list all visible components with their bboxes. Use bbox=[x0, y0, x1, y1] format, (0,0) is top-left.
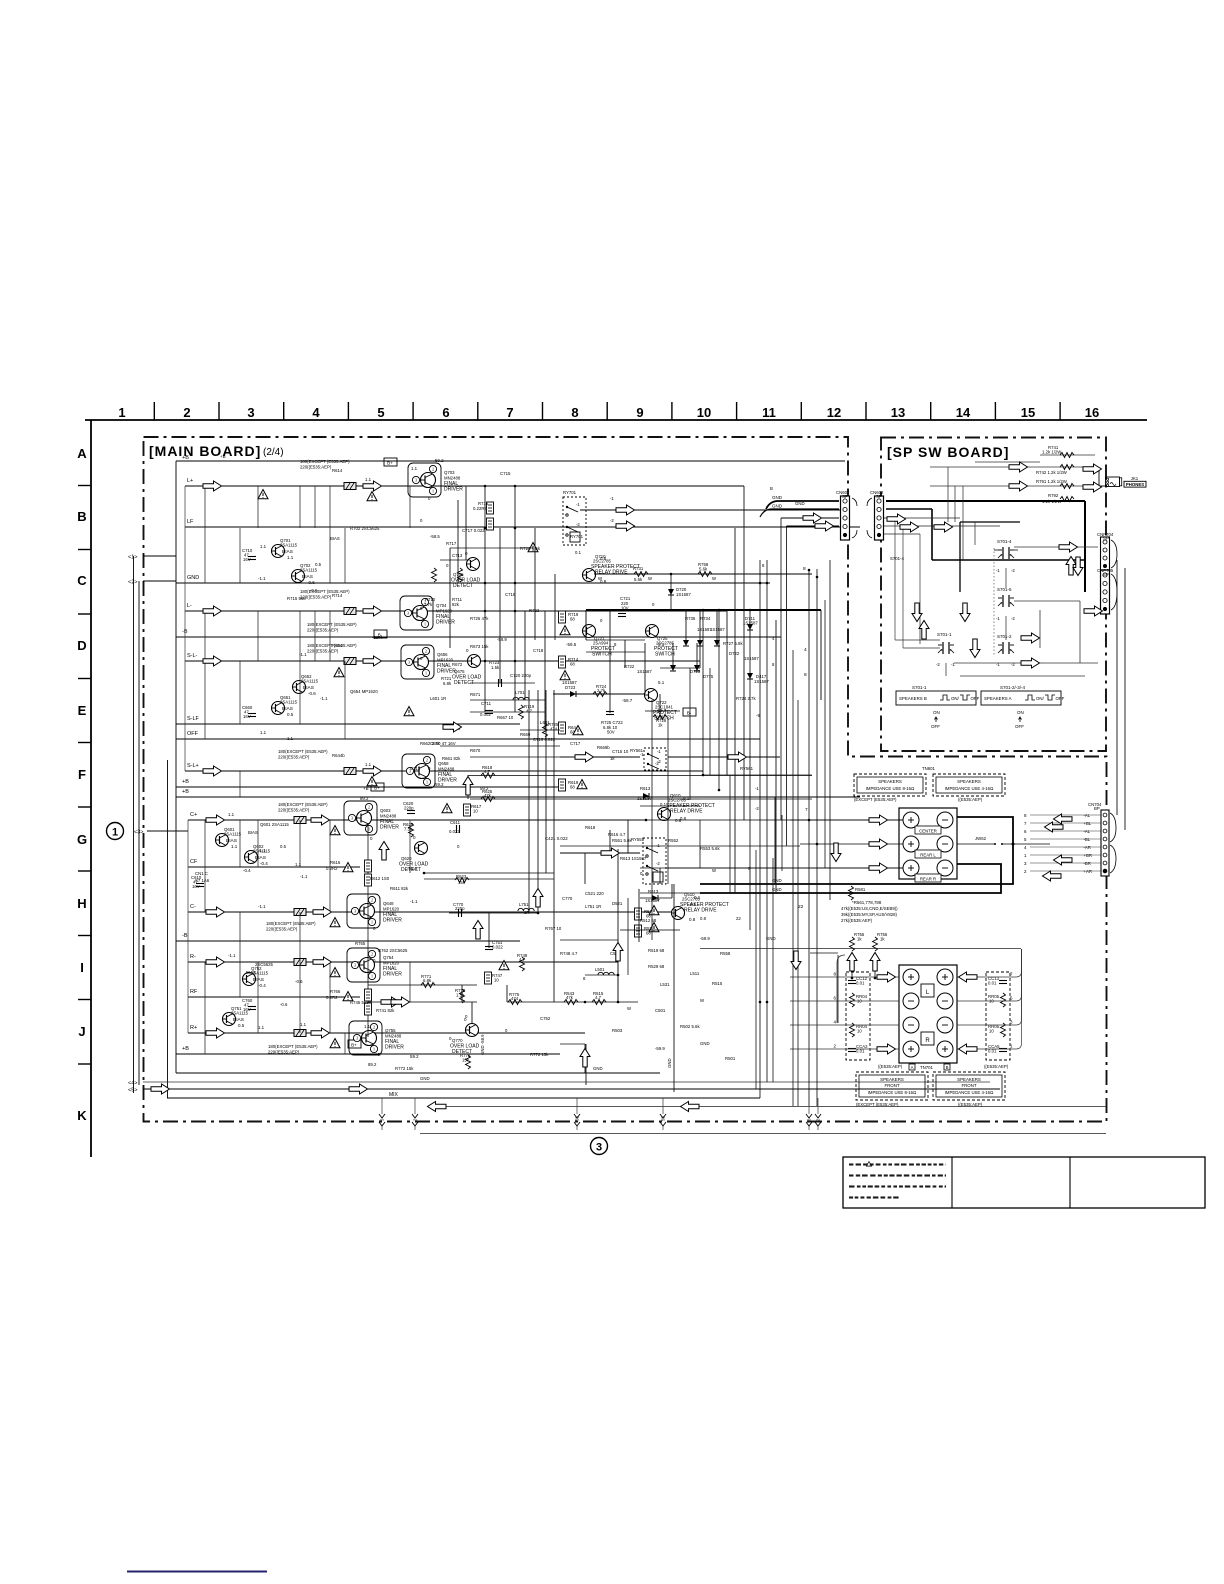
wire -B rail bbox=[176, 636, 781, 638]
svg-text:SWITCH: SWITCH bbox=[655, 652, 675, 658]
wire vertical segment bbox=[659, 868, 661, 884]
diode D717 bbox=[747, 673, 753, 679]
svg-text:0.022: 0.022 bbox=[492, 945, 503, 950]
svg-text:0.5: 0.5 bbox=[287, 712, 294, 717]
wire vertical stub bbox=[314, 486, 316, 528]
svg-text:MN2488: MN2488 bbox=[444, 476, 461, 481]
boxed resistor R619 bbox=[559, 779, 566, 791]
transistor Q754 final driver bbox=[347, 948, 402, 982]
wire vertical stub bbox=[239, 820, 241, 867]
wire riser x703 bbox=[702, 610, 704, 775]
inner bus vertical g3 bbox=[187, 820, 189, 1033]
transistor Q620 over load detect bbox=[399, 835, 429, 873]
relay RY561 contacts bbox=[647, 753, 649, 755]
resistor R741 bbox=[1060, 453, 1074, 458]
wire protect lower bbox=[553, 693, 586, 695]
wire horizontal segment bbox=[586, 639, 645, 641]
wire vertical segment bbox=[672, 643, 674, 668]
svg-text:R731: R731 bbox=[633, 566, 644, 571]
transistor Q703 final driver bbox=[408, 463, 463, 497]
resistor fuse SL+ row bbox=[344, 768, 356, 775]
svg-text:-59.9: -59.9 bbox=[700, 936, 710, 941]
connector CN602 brace bbox=[852, 498, 857, 538]
speakers front box 1 bbox=[856, 1072, 928, 1100]
svg-text:BIAS: BIAS bbox=[248, 830, 258, 835]
wire vertical segment bbox=[461, 985, 463, 1002]
wire vertical segment bbox=[585, 1044, 587, 1085]
warning triangle R747 bbox=[499, 961, 509, 970]
warning triangle SL+ row bbox=[367, 777, 377, 786]
svg-text:CF: CF bbox=[190, 859, 198, 865]
svg-text:2SA1115: 2SA1115 bbox=[224, 831, 242, 836]
boxed resistor R714 bbox=[559, 656, 566, 668]
svg-text:3.7k: 3.7k bbox=[424, 602, 433, 607]
svg-text:47k: 47k bbox=[566, 995, 574, 1000]
wire vertical segment bbox=[734, 528, 736, 893]
svg-text:*R561,778,788: *R561,778,788 bbox=[852, 900, 882, 905]
svg-text:220((E535:AEP): 220((E535:AEP) bbox=[307, 628, 339, 633]
resistor R742 bbox=[1060, 465, 1074, 470]
switch S701-2 bbox=[998, 642, 1014, 654]
wire vertical segment bbox=[467, 775, 469, 799]
svg-text:10: 10 bbox=[857, 1029, 862, 1034]
transistor Q751 bias bbox=[223, 1006, 249, 1028]
svg-text:REAR L: REAR L bbox=[920, 853, 936, 858]
svg-text:1S1587: 1S1587 bbox=[744, 656, 759, 661]
svg-text:-1: -1 bbox=[640, 752, 644, 757]
wire vertical segment bbox=[528, 690, 530, 913]
connector CN704 strip bbox=[1101, 810, 1109, 876]
svg-text:C720 220p: C720 220p bbox=[510, 673, 532, 678]
svg-text:GND: GND bbox=[772, 887, 782, 892]
svg-text:<4>: <4> bbox=[128, 1081, 137, 1087]
svg-text:R613 1S1587: R613 1S1587 bbox=[620, 856, 647, 861]
wire vertical segment bbox=[609, 830, 611, 852]
wire vertical segment bbox=[553, 690, 555, 1002]
wire riser x800 bbox=[786, 526, 788, 846]
wire C- bus bbox=[188, 911, 672, 913]
svg-text:R616 4.7: R616 4.7 bbox=[608, 832, 626, 837]
wire vertical segment bbox=[671, 884, 673, 898]
svg-text:LF: LF bbox=[187, 519, 194, 525]
switch S701-1 bbox=[938, 642, 954, 654]
svg-text:JW62: JW62 bbox=[975, 836, 987, 841]
svg-text:8: 8 bbox=[804, 672, 807, 678]
svg-text:RF: RF bbox=[190, 989, 198, 995]
wire horizontal segment bbox=[560, 845, 800, 847]
relay RY551 contacts bbox=[646, 847, 648, 849]
capacitor C611 bbox=[457, 825, 460, 833]
svg-text:R551 5.6k: R551 5.6k bbox=[612, 838, 632, 843]
wire rear r feed long bbox=[668, 867, 903, 869]
wire q722 emitter bbox=[645, 710, 680, 712]
wire GND bus row C bbox=[176, 582, 770, 584]
vertical resistor R711 bbox=[458, 568, 463, 582]
wire vertical segment bbox=[545, 690, 547, 873]
wire vertical riser bbox=[824, 600, 826, 868]
transistor Q602 bias bbox=[245, 844, 271, 866]
grid ruler column numbers 1-16 bbox=[118, 405, 1099, 420]
svg-text:C713: C713 bbox=[452, 553, 463, 558]
wire vertical segment bbox=[488, 913, 490, 948]
svg-text:[MAIN BOARD]: [MAIN BOARD] bbox=[149, 443, 261, 459]
wire horizontal segment bbox=[440, 745, 560, 747]
wire rear row bbox=[368, 984, 477, 986]
svg-text:MIX: MIX bbox=[389, 1092, 399, 1098]
resistor R618 4.7 bbox=[481, 773, 495, 778]
svg-text:1.1: 1.1 bbox=[258, 1025, 265, 1030]
svg-text:[SP SW BOARD]: [SP SW BOARD] bbox=[887, 444, 1009, 460]
svg-text:C: C bbox=[77, 573, 87, 588]
resistor R771 6.8k bbox=[421, 983, 435, 988]
warning triangle R616 bbox=[343, 863, 353, 872]
warning triangle L+ row bbox=[258, 490, 268, 499]
wire vertical riser bbox=[781, 815, 783, 871]
svg-text:1.1: 1.1 bbox=[295, 862, 302, 867]
svg-text:8: 8 bbox=[803, 566, 806, 572]
wire horizontal segment bbox=[470, 711, 545, 713]
svg-text:R552: R552 bbox=[668, 838, 679, 843]
wire vertical stub bbox=[257, 820, 259, 867]
svg-text:0.1: 0.1 bbox=[690, 902, 697, 907]
svg-text:-58.9: -58.9 bbox=[407, 866, 418, 871]
wire horizontal segment bbox=[640, 892, 700, 894]
svg-text:89.2: 89.2 bbox=[368, 1062, 377, 1067]
wire vertical segment bbox=[774, 797, 776, 884]
svg-text:CN1 C: CN1 C bbox=[195, 871, 208, 876]
svg-text:MN2488: MN2488 bbox=[385, 1034, 402, 1039]
svg-text:(2/4): (2/4) bbox=[263, 447, 284, 458]
connector chevron (6) at bottom edge bbox=[806, 1114, 812, 1126]
inductor L701 bbox=[513, 697, 529, 700]
wire D720 vertical bbox=[670, 574, 672, 610]
transistor Q652 bias bbox=[293, 674, 319, 696]
wire vertical stub bbox=[204, 486, 206, 583]
svg-text:R673 15k: R673 15k bbox=[470, 644, 489, 649]
heavy wire sp route left bbox=[886, 508, 932, 510]
svg-text:JK1: JK1 bbox=[1131, 476, 1139, 481]
svg-text:R: R bbox=[925, 1038, 930, 1044]
svg-text:-58.9: -58.9 bbox=[497, 637, 507, 642]
wire vertical riser bbox=[792, 650, 794, 1106]
svg-text:((E535:AEP): ((E535:AEP) bbox=[958, 797, 983, 802]
svg-text:B: B bbox=[770, 486, 773, 491]
svg-text:1.1: 1.1 bbox=[287, 555, 294, 560]
svg-text:DRIVER: DRIVER bbox=[385, 1045, 404, 1051]
svg-text:R672: R672 bbox=[452, 662, 463, 667]
svg-text:-1.1: -1.1 bbox=[258, 576, 266, 581]
grid ruler left line bbox=[90, 420, 92, 1157]
wire riser x767 bbox=[766, 560, 768, 1082]
relay RY551 coil bbox=[653, 872, 663, 882]
svg-text:C770: C770 bbox=[562, 896, 573, 901]
wire vertical segment bbox=[544, 611, 546, 730]
transistor Q601 bias bbox=[216, 827, 242, 849]
svg-text:-2: -2 bbox=[656, 861, 660, 866]
warning triangle SL row bbox=[334, 668, 344, 677]
svg-text:R-: R- bbox=[190, 954, 196, 960]
svg-text:C+: C+ bbox=[190, 812, 197, 818]
svg-text:R581: R581 bbox=[855, 887, 866, 892]
wire vertical stub bbox=[299, 912, 301, 962]
svg-text:C717: C717 bbox=[570, 741, 581, 746]
wire vertical segment bbox=[1124, 568, 1126, 830]
boxed resistor R747 bbox=[485, 972, 492, 984]
svg-text:Q601 2SA1115: Q601 2SA1115 bbox=[260, 822, 289, 827]
svg-text:1.1: 1.1 bbox=[364, 1024, 371, 1029]
capacitor C760 bbox=[248, 1007, 256, 1010]
label TN701 boxed AB bbox=[909, 1064, 915, 1070]
resistor R755 bbox=[850, 937, 855, 951]
transistor Q658 final driver bbox=[402, 754, 457, 788]
wire sp out row1 bbox=[1014, 546, 1098, 548]
svg-text:5.6k: 5.6k bbox=[699, 567, 708, 572]
svg-text:+BL: +BL bbox=[1084, 821, 1092, 826]
wire OFF bus bbox=[176, 738, 760, 740]
svg-text:5.6k: 5.6k bbox=[634, 577, 643, 582]
svg-text:47k((E535:US,CND,E/SEB9)): 47k((E535:US,CND,E/SEB9)) bbox=[841, 906, 898, 911]
svg-text:J: J bbox=[78, 1024, 85, 1039]
front terminal bbox=[937, 969, 953, 985]
grid ruler row letters A-K bbox=[77, 446, 87, 1123]
svg-text:16V: 16V bbox=[243, 1007, 251, 1012]
svg-text:+B: +B bbox=[375, 1052, 381, 1057]
svg-text:22: 22 bbox=[736, 916, 741, 921]
wire vertical stub bbox=[239, 661, 241, 724]
svg-text:220((E535:AEP): 220((E535:AEP) bbox=[266, 927, 298, 932]
wire vertical stub bbox=[344, 1033, 346, 1054]
warning triangle R766 bbox=[343, 992, 353, 1001]
svg-text:-58.5: -58.5 bbox=[430, 534, 440, 539]
svg-text:1.1: 1.1 bbox=[231, 844, 238, 849]
wire vertical stub bbox=[299, 611, 301, 661]
svg-text:Q754: Q754 bbox=[383, 955, 394, 960]
svg-text:4: 4 bbox=[312, 405, 320, 420]
svg-text:1: 1 bbox=[118, 405, 125, 420]
MAIN BOARD title bbox=[149, 443, 284, 459]
svg-text:RY701: RY701 bbox=[570, 534, 584, 539]
svg-text:180(EXCEPT (E535:AEP): 180(EXCEPT (E535:AEP) bbox=[266, 921, 316, 926]
svg-text:-59.7: -59.7 bbox=[656, 708, 667, 713]
svg-text:R727 6.8k: R727 6.8k bbox=[723, 641, 743, 646]
svg-text:-59.5: -59.5 bbox=[566, 642, 577, 647]
resistor R725b bbox=[543, 723, 548, 737]
inner block outline left edge bbox=[175, 461, 177, 1073]
wire driver chain vertical G-J bbox=[367, 823, 369, 1037]
svg-text:59.2: 59.2 bbox=[435, 458, 444, 463]
transistor Q610 speaker protect relay drive bbox=[658, 793, 715, 823]
label L boxed bbox=[921, 984, 934, 997]
svg-text:1.1: 1.1 bbox=[260, 730, 267, 735]
svg-text:RELAY DRIVE: RELAY DRIVE bbox=[670, 809, 703, 815]
transistor Q710 speaker protect relay drive bbox=[583, 554, 640, 584]
svg-text:-2: -2 bbox=[1011, 568, 1015, 573]
svg-text:FRONT: FRONT bbox=[884, 1083, 899, 1088]
wire vertical stub bbox=[329, 962, 331, 1033]
svg-text:-2: -2 bbox=[755, 806, 759, 811]
terminal tm bbox=[937, 860, 953, 876]
wire vertical segment bbox=[524, 611, 526, 700]
heavy wire sp left down bbox=[931, 509, 933, 560]
svg-text:R613: R613 bbox=[640, 786, 651, 791]
svg-text:GND: GND bbox=[772, 504, 783, 509]
svg-text:ON/: ON/ bbox=[951, 696, 960, 701]
svg-text:-1.1: -1.1 bbox=[258, 848, 266, 853]
svg-text:2SA1115: 2SA1115 bbox=[301, 678, 319, 683]
svg-text:180(EXCEPT (E535:AEP): 180(EXCEPT (E535:AEP) bbox=[300, 459, 350, 464]
relay RY561 dashed box bbox=[644, 748, 666, 770]
wire horizontal segment bbox=[424, 878, 554, 880]
svg-text:-0.4: -0.4 bbox=[258, 983, 266, 988]
wire L501 up bbox=[617, 940, 619, 975]
wire front return bus bbox=[700, 948, 1021, 950]
svg-text:<5>: <5> bbox=[128, 1088, 137, 1094]
wire vertical segment bbox=[624, 640, 626, 668]
connector chevron (55) at bottom edge bbox=[574, 1114, 580, 1126]
svg-text:R791 1.2k 1/2W: R791 1.2k 1/2W bbox=[1036, 479, 1068, 484]
wire rear l feed bbox=[800, 843, 903, 845]
terminal tp bbox=[903, 836, 919, 852]
wire gnd heavy route a bbox=[700, 817, 1013, 884]
wire r755 drop bbox=[851, 952, 853, 978]
wire vertical segment bbox=[627, 820, 629, 853]
svg-text:H: H bbox=[77, 896, 86, 911]
svg-text:C752: C752 bbox=[540, 1016, 551, 1021]
svg-text:D725: D725 bbox=[690, 669, 701, 674]
net label B- box mid bbox=[683, 708, 696, 716]
svg-text:1.5k: 1.5k bbox=[491, 665, 500, 670]
wire riser x809 bbox=[808, 569, 810, 1106]
wire vertical stub bbox=[299, 661, 301, 724]
relay RY551 dashed box bbox=[643, 838, 666, 884]
wire C+ bus bbox=[188, 819, 640, 821]
svg-text:4.7: 4.7 bbox=[484, 769, 491, 774]
warning triangle pair right bbox=[649, 906, 659, 915]
dashed option box left bbox=[846, 972, 870, 1060]
wire vertical segment bbox=[659, 694, 661, 717]
wire vertical segment bbox=[638, 889, 640, 942]
wire -B rail g4 bbox=[176, 940, 520, 942]
left connector riser wires bbox=[133, 556, 135, 1093]
svg-text:1S1587: 1S1587 bbox=[637, 796, 652, 801]
svg-text:59.2: 59.2 bbox=[435, 782, 444, 787]
wire g3 mid bbox=[424, 872, 554, 874]
svg-text:Q654 MP1620: Q654 MP1620 bbox=[350, 689, 378, 694]
svg-text:7: 7 bbox=[805, 807, 808, 813]
wire vertical riser extra bbox=[667, 717, 669, 884]
wire vertical stub bbox=[204, 820, 206, 912]
svg-text:SPEAKERS A: SPEAKERS A bbox=[984, 696, 1012, 701]
relay RY701 dashed box bbox=[563, 497, 586, 545]
capacitor C770 bbox=[459, 909, 462, 917]
resistor R726 bbox=[653, 715, 667, 720]
svg-text:OFF: OFF bbox=[187, 731, 199, 737]
wire horizontal segment bbox=[700, 798, 812, 800]
svg-text:+B: +B bbox=[182, 455, 189, 461]
svg-text:R734: R734 bbox=[700, 616, 711, 621]
svg-text:+B: +B bbox=[182, 1046, 189, 1052]
svg-text:R669b: R669b bbox=[597, 745, 610, 750]
wire vertical segment bbox=[465, 486, 467, 560]
svg-text:180(EXCEPT (E535:AEP): 180(EXCEPT (E535:AEP) bbox=[268, 1044, 318, 1049]
svg-text:SP: SP bbox=[842, 494, 848, 499]
svg-text:4.7: 4.7 bbox=[519, 957, 526, 962]
wire vertical stub bbox=[239, 528, 241, 583]
label CENTER boxed bbox=[915, 826, 941, 834]
svg-text:82k: 82k bbox=[452, 602, 460, 607]
label REAR L boxed bbox=[915, 850, 941, 858]
net label B+ box bottom bbox=[348, 1040, 361, 1048]
wire rear vert bbox=[584, 1044, 586, 1073]
svg-text:R717: R717 bbox=[446, 541, 457, 546]
svg-text:R792: R792 bbox=[1048, 493, 1059, 498]
svg-text:MP1620: MP1620 bbox=[383, 961, 400, 966]
svg-text:0.8: 0.8 bbox=[689, 917, 696, 922]
transistor Q648 final driver bbox=[347, 894, 402, 928]
svg-text:ON: ON bbox=[1017, 710, 1024, 715]
wire sp riser b bbox=[1039, 610, 1041, 648]
svg-text:-0.4: -0.4 bbox=[260, 861, 268, 866]
wire +B rail g2b bbox=[176, 796, 860, 798]
wire vertical segment bbox=[514, 486, 516, 712]
wire sp mesh 1 bbox=[894, 518, 896, 640]
capacitor C721 bbox=[618, 614, 626, 617]
wire sp out row4 bbox=[960, 675, 1085, 677]
svg-text:SP: SP bbox=[876, 494, 882, 499]
svg-text:D: D bbox=[77, 638, 86, 653]
svg-text:FRONT: FRONT bbox=[961, 1083, 976, 1088]
svg-text:-1.1: -1.1 bbox=[300, 874, 308, 879]
resistor R758 5.6k bbox=[698, 572, 712, 577]
SP SW BOARD dash-dot outline bbox=[881, 438, 1106, 752]
wire vertical riser extra bbox=[772, 858, 774, 1082]
wire RY561 in bbox=[560, 756, 640, 758]
svg-text:1S1587: 1S1587 bbox=[645, 898, 660, 903]
svg-text:5.1: 5.1 bbox=[658, 642, 665, 647]
svg-text:220((E535:AEP): 220((E535:AEP) bbox=[278, 755, 310, 760]
svg-text:Q656: Q656 bbox=[437, 652, 448, 657]
front terminal bbox=[903, 993, 919, 1009]
wire rear row2 bbox=[368, 1001, 477, 1003]
svg-text:R512 68: R512 68 bbox=[640, 918, 657, 923]
warning triangle R+ row bbox=[330, 1039, 340, 1048]
terminal block front LR bbox=[899, 965, 957, 1063]
resistor fuse C- row bbox=[294, 909, 306, 916]
wire relay out 2 bbox=[580, 526, 600, 528]
wire vertical riser extra bbox=[709, 668, 711, 775]
net label B+ box bbox=[384, 458, 397, 466]
svg-text:OFF: OFF bbox=[1056, 696, 1065, 701]
warning triangle L+ row b bbox=[367, 492, 377, 501]
wire sp r742 row bbox=[930, 466, 1085, 468]
svg-text:-1: -1 bbox=[657, 749, 661, 754]
svg-text:R501: R501 bbox=[725, 1056, 736, 1061]
warning triangle R719 bbox=[560, 626, 570, 635]
svg-text:-1: -1 bbox=[996, 568, 1000, 573]
svg-text:SPEAKERS: SPEAKERS bbox=[878, 779, 902, 784]
svg-text:((E535:AEP): ((E535:AEP) bbox=[984, 1064, 1009, 1069]
speakers impedance box 2 bbox=[933, 774, 1005, 796]
svg-text:BP: BP bbox=[1094, 806, 1100, 811]
svg-text:1S1587: 1S1587 bbox=[743, 621, 758, 626]
svg-text:S-LF: S-LF bbox=[187, 716, 200, 722]
svg-text:S701-4: S701-4 bbox=[997, 539, 1012, 544]
resistor R791 bbox=[1060, 484, 1074, 489]
svg-text:L501: L501 bbox=[595, 967, 605, 972]
svg-text:R748 4.7: R748 4.7 bbox=[560, 951, 578, 956]
svg-text:59.2: 59.2 bbox=[410, 1054, 419, 1059]
wire L+ bus bbox=[185, 485, 744, 487]
